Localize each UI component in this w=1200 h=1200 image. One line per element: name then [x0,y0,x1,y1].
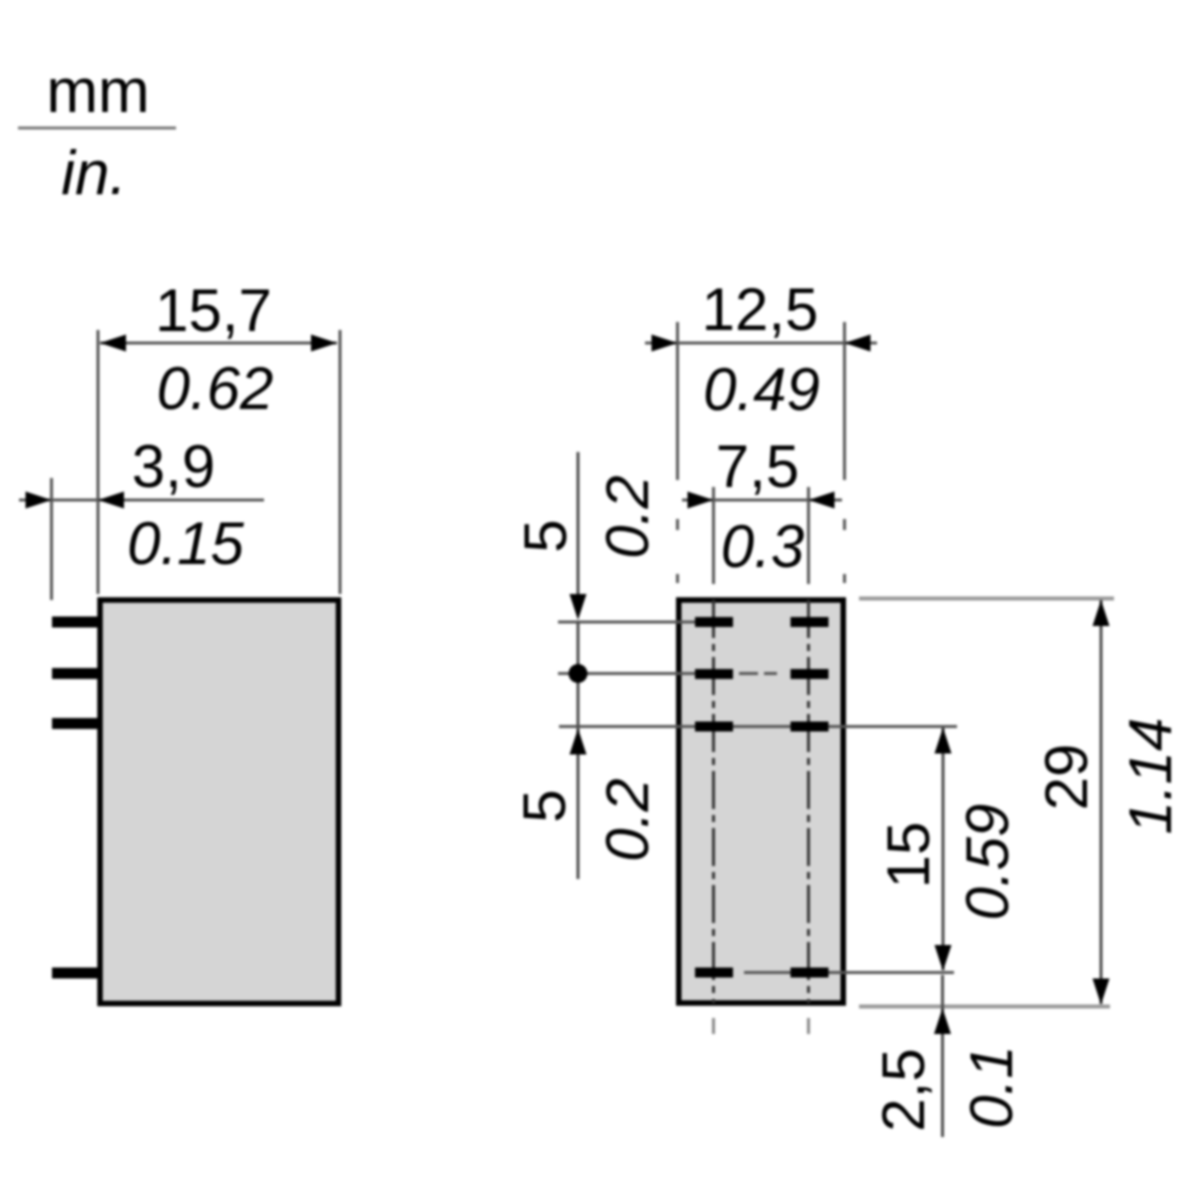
svg-text:0.62: 0.62 [157,355,274,422]
dim 2,5 dimension line [941,975,944,1137]
dim 12,5 extension line left [676,322,679,480]
dim 3,9 arrow at body edge [98,492,124,509]
svg-text:7,5: 7,5 [716,433,799,500]
right view pin bar row1 left [695,617,733,627]
svg-text:3,9: 3,9 [132,433,215,500]
dim 12,5 arrow left [652,335,678,352]
units legend in. [61,139,126,208]
units legend mm [46,57,149,126]
left view body [100,600,339,1004]
dim 12,5 arrow right [845,335,871,352]
right view body [679,600,844,1003]
right view pin bar row2 right [791,669,829,679]
svg-text:5: 5 [511,789,578,822]
right view pin bar row2 left [695,669,733,679]
right view pin bar row3 left [695,722,733,732]
dim 29 dimension line [1100,600,1103,1004]
svg-text:0.2: 0.2 [594,475,661,558]
row 1 reference line [558,621,695,624]
dim 7,5 dimension line [682,499,842,502]
svg-text:0.3: 0.3 [721,513,804,580]
right view pin bar bottom left [695,968,733,978]
svg-text:in.: in. [61,139,126,208]
svg-text:0.59: 0.59 [954,804,1021,921]
svg-text:15: 15 [875,822,942,889]
svg-text:12,5: 12,5 [702,276,819,343]
dim 7,5 arrow left [688,492,714,509]
dim 15 arrow up [935,728,952,754]
dim 3,9 dimension line [19,499,264,502]
svg-text:1.14: 1.14 [1117,718,1184,835]
dim 7,5 extension line left [712,487,715,584]
bottom row reference line [744,971,954,974]
svg-text:2,5: 2,5 [870,1048,937,1131]
dim 12,5 dimension line [645,342,877,345]
dim 12,5 extension left dashes [676,519,679,583]
dim 29 arrow down [1093,979,1110,1005]
dim 3,9 arrow outside-left [26,492,52,509]
dim 15,7 arrow right [311,335,337,352]
dim 15,7 arrow left [100,335,126,352]
top right extension line [859,597,1114,601]
right view centerline right column [807,600,810,1003]
dim 15,7 dimension line [100,342,337,345]
dim 15,7 extension line left [97,330,100,594]
dim 5 lower dimension line [577,621,580,879]
svg-text:5: 5 [512,519,579,552]
dim 15 arrow down [935,945,952,971]
svg-text:0.49: 0.49 [703,356,820,423]
right view pin bar row1 right [791,617,829,627]
left view pin 3 [52,718,98,729]
dim 12,5 extension right dashes [843,519,846,583]
dim 5 upper dimension line [577,452,580,612]
right view centerline left column tail [712,1018,715,1034]
left view pin 1 [52,617,98,628]
dim 7,5 extension line right [807,487,810,584]
dim 5 lower arrow up [570,729,587,755]
dim 5 upper arrow down [570,594,587,620]
dim 12,5 extension line right [843,322,846,480]
dim 3,9 extension line [50,478,53,600]
bottom right extension line [859,1005,1110,1009]
left view pin 2 [52,668,98,679]
right view centerline right column tail [807,1018,810,1034]
svg-text:0.15: 0.15 [127,510,244,577]
dim 29 arrow up [1093,600,1110,626]
row 3 reference line [559,725,957,728]
right view pin bar row3 right [791,722,829,732]
right view pin bar bottom right [791,968,829,978]
right view centerline left column [712,600,715,1003]
left view pin 4 [52,968,98,979]
svg-text:0.1: 0.1 [958,1045,1025,1128]
svg-text:29: 29 [1033,744,1100,811]
svg-text:15,7: 15,7 [155,277,272,344]
row 2 reference line [558,672,733,675]
units fraction line [18,127,176,130]
dim 5 shared dot [569,664,588,683]
dim 15 dimension line [942,728,945,970]
svg-text:0.2: 0.2 [594,778,661,861]
svg-text:mm: mm [46,57,149,126]
dim 7,5 arrow right [809,492,835,509]
dim 2,5 arrow up [934,1008,951,1034]
dim 15,7 extension line right [339,330,342,594]
row 2 reference line dashes [739,672,777,675]
